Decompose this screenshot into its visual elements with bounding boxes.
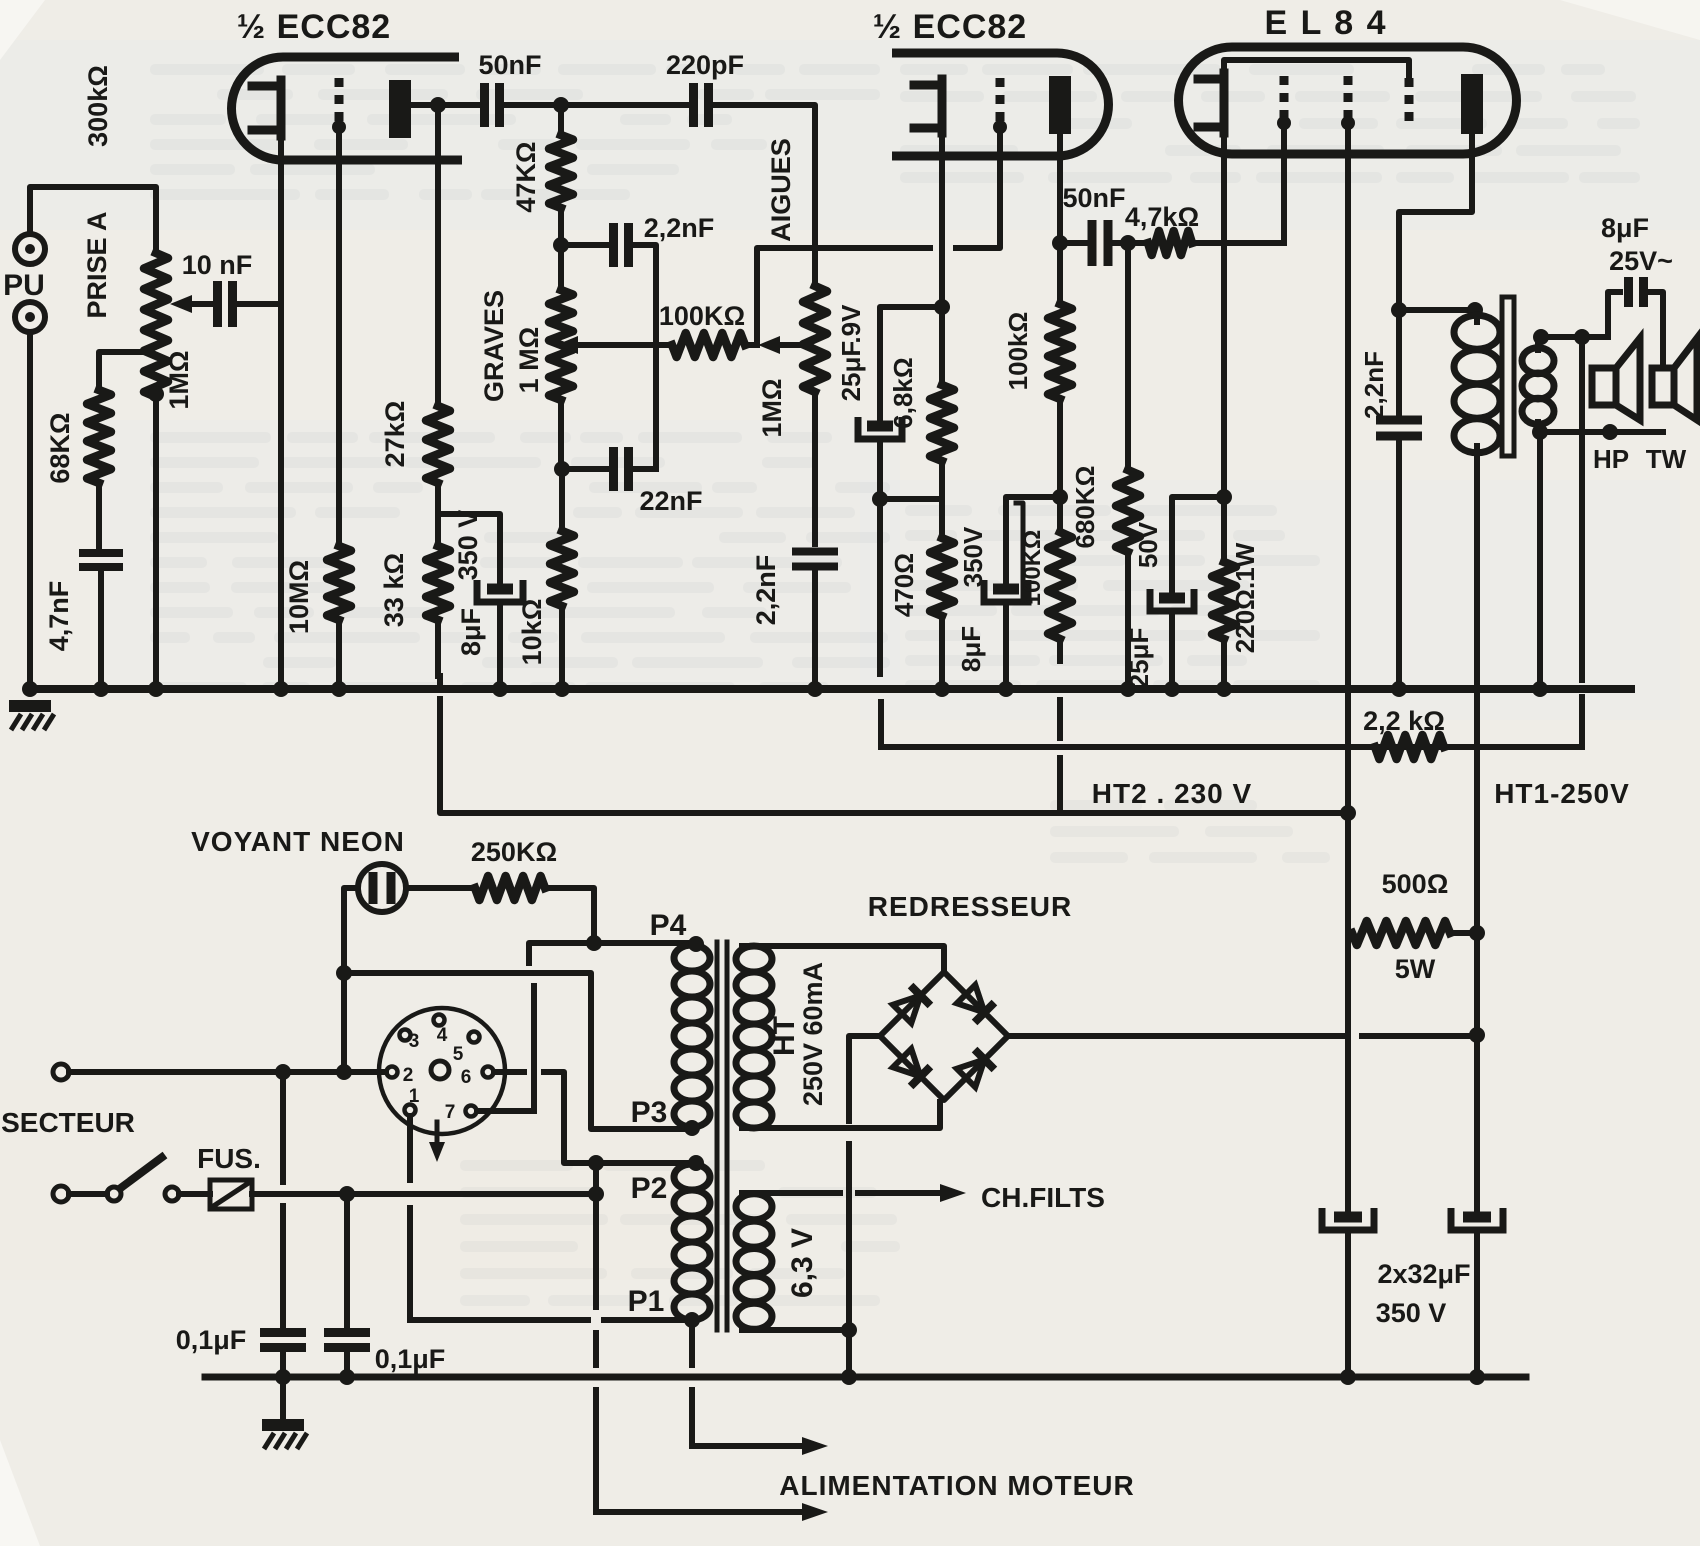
wire V2 anode down — [1057, 134, 1063, 304]
wire node to 8uF2 — [1006, 497, 1060, 583]
label tube V3 EL84 — [1265, 4, 1388, 42]
svg-text:2,2nF: 2,2nF — [751, 555, 781, 626]
svg-text:350 V: 350 V — [453, 510, 483, 581]
wire HT bottom to bridge — [742, 1102, 940, 1128]
label 50nF second — [1062, 183, 1125, 213]
node 680k bus — [1120, 681, 1136, 697]
resistor 6.8kOhm — [930, 385, 954, 461]
wire AIGUES bottom — [812, 392, 818, 544]
socket pin1 — [405, 1086, 420, 1116]
wire secondary bottom — [1538, 422, 1663, 432]
ground bus main — [27, 685, 1631, 693]
svg-text:6: 6 — [461, 1067, 472, 1088]
label 470Ohm — [889, 553, 919, 617]
wire 6.3V top — [742, 1190, 944, 1196]
label tube V1 1/2 ECC82 — [237, 8, 391, 46]
tube V1 cathode — [252, 80, 281, 136]
label 2.2kOhm — [1363, 706, 1445, 736]
socket pin4 — [434, 1015, 448, 1047]
fuse box — [179, 1180, 252, 1209]
node 0.1uF2 bus — [339, 1369, 355, 1385]
capacitor 220pF — [694, 83, 709, 127]
wire screen line to caps — [1345, 813, 1351, 1211]
wire 10M to bus — [336, 620, 342, 689]
label 2x32uF — [1377, 1259, 1470, 1289]
label 100kOhm second — [1019, 530, 1046, 607]
svg-text:100KΩ: 100KΩ — [659, 301, 745, 331]
node 680k top — [1120, 235, 1136, 251]
resistor 220Ohm — [1212, 562, 1236, 639]
svg-text:47KΩ: 47KΩ — [511, 141, 541, 212]
wire 47k top lead — [558, 105, 564, 135]
ground input — [9, 700, 54, 730]
node 47k top — [553, 97, 569, 113]
wire anode node to 50nF — [1060, 240, 1085, 246]
wire 0.1uF2 to bus — [344, 1348, 350, 1377]
tube V1 grid — [332, 78, 346, 134]
node bridge HT1 — [1469, 1027, 1485, 1043]
node 0.1uF2 tap — [339, 1186, 355, 1202]
label TW — [1646, 444, 1687, 474]
node fuse P2 junction — [588, 1186, 604, 1202]
svg-text:1: 1 — [409, 1086, 420, 1107]
capacitor 25uF 9V — [858, 417, 902, 439]
svg-text:ALIMENTATION MOTEUR: ALIMENTATION MOTEUR — [779, 1470, 1134, 1501]
svg-text:27kΩ: 27kΩ — [380, 401, 410, 468]
node P3 terminal — [684, 1120, 700, 1136]
label 2.2nF el84 — [1359, 351, 1389, 419]
wire pin7 to P4 — [477, 1108, 534, 1114]
svg-text:6,8kΩ: 6,8kΩ — [888, 357, 918, 428]
svg-text:300kΩ: 300kΩ — [83, 65, 113, 147]
node sec top — [1533, 329, 1549, 345]
node 2.2nF bus — [1391, 681, 1407, 697]
label 350V caps — [1376, 1298, 1447, 1328]
label 8uF first — [456, 608, 486, 656]
socket pin5 — [453, 1032, 480, 1066]
label HT2 230V — [1092, 778, 1252, 809]
arrow CH FILTS — [940, 1184, 966, 1202]
capacitor 8uF 350V first — [477, 580, 523, 602]
svg-text:HT2 . 230 V: HT2 . 230 V — [1092, 778, 1252, 809]
node P4 terminal — [688, 936, 704, 952]
label AIGUES 1MOhm — [757, 378, 787, 437]
terminal mains2 — [53, 1186, 69, 1202]
potentiometer AIGUES 1M — [803, 286, 827, 392]
svg-text:0,1μF: 0,1μF — [375, 1344, 446, 1374]
node decoupling — [1052, 489, 1068, 505]
node P2 terminal — [688, 1155, 704, 1171]
svg-text:2: 2 — [403, 1065, 414, 1086]
node bridge bus — [841, 1369, 857, 1385]
resistor 100kOhm tone — [672, 333, 745, 357]
wire 6.8k bottom — [939, 461, 945, 499]
label 250kOhm — [471, 837, 557, 867]
wire 10nF to V1 — [233, 301, 281, 307]
wire EL84 grid1 lead — [1281, 124, 1287, 243]
capacitor 22nF — [614, 447, 629, 491]
svg-text:10MΩ: 10MΩ — [284, 560, 314, 634]
label FUS — [197, 1143, 261, 1174]
output transformer core — [1502, 297, 1514, 456]
label 6.8kOhm — [888, 357, 918, 428]
label P2 — [631, 1172, 668, 1205]
capacitor 0.1uF second — [324, 1333, 370, 1348]
svg-text:220Ω.1W: 220Ω.1W — [1230, 542, 1260, 653]
node capA bus — [1340, 1369, 1356, 1385]
wire secondary top — [1538, 337, 1608, 350]
wire 100k2 to HT2 — [1057, 758, 1063, 813]
wire pin6 out — [494, 1069, 524, 1075]
svg-text:P3: P3 — [631, 1096, 668, 1129]
jack PU top — [15, 234, 45, 264]
capacitor filter A 2x32uF — [1322, 1208, 1374, 1230]
wire mains to 0.1uF1 — [280, 1072, 286, 1331]
svg-text:50nF: 50nF — [1062, 183, 1125, 213]
socket pin2 — [387, 1065, 414, 1086]
wire V1 cathode to bus — [278, 136, 284, 689]
wire 470 top — [939, 499, 945, 538]
diode top-left — [893, 986, 931, 1024]
resistor 33kOhm — [426, 546, 450, 620]
svg-text:8μF: 8μF — [456, 608, 486, 656]
resistor 100kOhm second — [1048, 532, 1072, 639]
feedback wire — [882, 744, 1582, 750]
potentiometer 300k — [144, 253, 168, 397]
label pot 1MOhm — [164, 350, 194, 409]
label 6.3V — [786, 1228, 819, 1298]
svg-text:E L 8 4: E L 8 4 — [1265, 4, 1388, 42]
socket arrow — [429, 1122, 445, 1162]
wire 50nF to 4.7k — [1108, 240, 1148, 246]
label 5W — [1395, 954, 1436, 984]
wire 100k2 leads — [1057, 497, 1063, 661]
wire 2.2nF el84 to bus — [1396, 436, 1402, 689]
bottom bus — [205, 1374, 1526, 1381]
node 10k bus — [554, 681, 570, 697]
wire 22nF right — [629, 466, 656, 472]
label ALIMENTATION MOTEUR — [779, 1470, 1134, 1501]
svg-text:10 nF: 10 nF — [182, 250, 253, 280]
wire motor feed 2 — [596, 1503, 828, 1521]
node 0.1uF1 tap — [275, 1064, 291, 1080]
tube V1 anode — [389, 80, 411, 138]
svg-text:350V: 350V — [958, 526, 988, 587]
node aigues bus — [807, 681, 823, 697]
node V1 cathode bus — [273, 681, 289, 697]
svg-text:250V 60mA: 250V 60mA — [798, 962, 828, 1106]
socket pin3 — [400, 1030, 420, 1053]
svg-text:22nF: 22nF — [639, 486, 702, 516]
terminal mains1 — [53, 1064, 69, 1080]
label 10nF — [182, 250, 253, 280]
socket pin7 — [445, 1102, 477, 1123]
EL84 cathode — [1198, 73, 1224, 133]
node speaker ground bus — [1532, 681, 1548, 697]
svg-text:AIGUES: AIGUES — [766, 138, 796, 242]
wire anode to OT primary — [1399, 307, 1475, 313]
svg-text:7: 7 — [445, 1102, 456, 1123]
svg-text:4: 4 — [437, 1025, 448, 1046]
diode top-right — [957, 985, 995, 1023]
bridge diamond — [880, 972, 1008, 1100]
wire EL84 cathode down — [1221, 133, 1227, 497]
label P1 — [628, 1285, 665, 1318]
wire 8uF to bus — [497, 605, 503, 689]
label 0.1uF left — [176, 1325, 247, 1355]
wire 8uF25V to TW — [1644, 292, 1663, 368]
node 500 HT1 — [1469, 925, 1485, 941]
capacitor 4.7nF — [79, 553, 123, 567]
label 25V — [1609, 246, 1673, 276]
node anode corner — [1391, 302, 1407, 318]
wire 68k top — [99, 352, 148, 390]
switch mains — [69, 1155, 179, 1201]
label SECTEUR — [1, 1107, 135, 1138]
socket pin6 — [461, 1067, 494, 1089]
svg-text:250KΩ: 250KΩ — [471, 837, 557, 867]
wire 33k jump to HT2 — [437, 676, 443, 689]
svg-text:220pF: 220pF — [666, 50, 744, 80]
wire 0.1uF1 to bus — [280, 1348, 286, 1377]
wire jack1 to pot top — [30, 187, 156, 253]
EL84 anode — [1461, 74, 1483, 134]
neon lamp — [358, 864, 406, 912]
transformer winding P2-P1 — [674, 1164, 710, 1320]
label 50V — [1133, 521, 1163, 568]
wire 100k mid — [1057, 399, 1063, 497]
wire P4 row — [529, 943, 694, 963]
svg-text:CH.FILTS: CH.FILTS — [981, 1182, 1105, 1213]
svg-text:1MΩ: 1MΩ — [164, 350, 194, 409]
node V2 anode coupling — [1052, 235, 1068, 251]
svg-text:HT1-250V: HT1-250V — [1494, 778, 1630, 809]
diode bottom-left — [893, 1049, 931, 1087]
node HP top — [1574, 329, 1590, 345]
capacitor 0.1uF first — [260, 1333, 306, 1348]
label P3 — [631, 1096, 668, 1129]
svg-text:PU: PU — [3, 269, 45, 302]
wire top to 27k — [435, 105, 441, 406]
wire 8uF2 to bus — [1003, 605, 1009, 689]
tube EL84 envelope — [1179, 47, 1517, 154]
wire motor feed 1 — [692, 1437, 828, 1455]
label 100kOhm tone — [659, 301, 745, 331]
svg-text:3: 3 — [409, 1031, 420, 1052]
node 22nF left — [554, 461, 570, 477]
wire HT top to bridge — [742, 946, 944, 972]
EL84 grid2 — [1341, 76, 1355, 130]
wire speaker ground — [1537, 432, 1543, 689]
label 8uF second — [956, 626, 986, 672]
speaker TW — [1652, 338, 1697, 420]
wire bridge DC out — [1008, 1033, 1477, 1039]
capacitor 50nF second — [1092, 220, 1108, 266]
svg-text:50V: 50V — [1133, 521, 1163, 568]
label 4.7kOhm — [1125, 202, 1199, 232]
wire P4 to pin7 — [531, 986, 537, 1111]
transformer HT winding — [736, 946, 772, 1128]
svg-text:REDRESSEUR: REDRESSEUR — [868, 891, 1072, 922]
label 27kOhm — [380, 401, 410, 468]
node P2 junction — [588, 1155, 604, 1171]
svg-text:680KΩ: 680KΩ — [1070, 465, 1100, 548]
wire V1 anode row — [411, 102, 483, 108]
label VOYANT NEON — [191, 826, 405, 857]
svg-text:2x32μF: 2x32μF — [1377, 1259, 1470, 1289]
transformer 6.3V winding — [736, 1194, 772, 1330]
wire HP connector — [1579, 337, 1585, 432]
label tube V2 1/2 ECC82 — [873, 8, 1027, 46]
label 500Ohm — [1382, 869, 1449, 899]
tube V2 grid — [993, 78, 1007, 134]
EL84 grid3 — [1405, 78, 1414, 124]
wire 6.3V bottom — [742, 1327, 849, 1333]
wire 33k leads — [435, 514, 441, 676]
wire neon left — [344, 888, 358, 1072]
socket circle — [379, 1008, 505, 1134]
wire 10k to bus — [559, 606, 565, 689]
wire 220pF to AIGUES top — [710, 105, 815, 286]
node EL84 cathode — [1216, 489, 1232, 505]
HT2 rail — [440, 699, 1348, 813]
capacitor 25uF 50V — [1150, 589, 1194, 611]
ground power — [262, 1377, 307, 1449]
label REDRESSEUR — [868, 891, 1072, 922]
wire junction to 8uF — [438, 514, 500, 583]
svg-text:FUS.: FUS. — [197, 1143, 261, 1174]
resistor 470Ohm — [930, 538, 954, 616]
svg-text:VOYANT NEON: VOYANT NEON — [191, 826, 405, 857]
label AIGUES — [766, 138, 796, 242]
wire P2 drop — [593, 1163, 599, 1512]
node screen HT2 — [1340, 805, 1356, 821]
wire 27k to junction — [435, 483, 441, 514]
svg-text:500Ω: 500Ω — [1382, 869, 1449, 899]
label HT — [768, 1016, 801, 1056]
svg-text:100kΩ: 100kΩ — [1003, 312, 1033, 391]
svg-text:4,7nF: 4,7nF — [44, 581, 74, 652]
svg-text:5: 5 — [453, 1044, 464, 1065]
svg-text:1 MΩ: 1 MΩ — [514, 327, 544, 394]
wire 50nF to 220pF — [500, 102, 692, 108]
wire pot bottom to bus — [153, 397, 159, 689]
node 27k top — [430, 97, 446, 113]
label P4 — [650, 909, 687, 942]
resistor 250kOhm — [475, 876, 545, 900]
wire 680k top lead — [1125, 243, 1131, 470]
potentiometer GRAVES 1M — [549, 290, 573, 400]
wire 4.7k to EL84 grid — [1192, 240, 1284, 246]
wire 220 leads — [1221, 497, 1227, 689]
label 350V first — [453, 510, 483, 581]
wire neon to 250k — [406, 885, 475, 891]
wire feedback drop — [1579, 432, 1585, 747]
label HP — [1593, 444, 1629, 474]
label 0.1uF right — [375, 1344, 446, 1374]
label 22nF — [639, 486, 702, 516]
svg-text:HT: HT — [768, 1016, 801, 1056]
node V2 cathode — [934, 299, 950, 315]
wire mains top — [69, 1069, 386, 1075]
wire V1 grid lead — [336, 130, 342, 546]
resistor 27kOhm — [426, 406, 450, 483]
wire 680k to bus — [1125, 552, 1131, 689]
wire riser to 8uF25V — [1608, 292, 1620, 337]
svg-text:25μF: 25μF — [1124, 628, 1154, 689]
label 350V second — [958, 526, 988, 587]
svg-text:0,1μF: 0,1μF — [176, 1325, 247, 1355]
label 10kOhm — [517, 599, 547, 666]
label 25uF50V — [1124, 628, 1154, 689]
output transformer secondary coil — [1522, 348, 1554, 425]
svg-text:470Ω: 470Ω — [889, 553, 919, 617]
wire 25uF50V to bus — [1169, 614, 1175, 689]
wire OT primary to HT1 — [1474, 453, 1480, 1035]
node pot bottom — [148, 386, 164, 402]
output transformer primary coil — [1454, 310, 1500, 455]
wire node to 470 — [880, 496, 942, 502]
tube V2 anode — [1049, 76, 1071, 134]
wire 470 to bus — [939, 616, 945, 689]
wire anode to 2.2nF — [1396, 310, 1402, 420]
node 4.7nF bus — [93, 681, 109, 697]
node neon tap — [336, 965, 352, 981]
wire jack2 to bus — [27, 332, 33, 689]
wire 2.2nF aigues to bus — [812, 566, 818, 689]
label 4.7nF — [44, 581, 74, 652]
node neon mains — [336, 1064, 352, 1080]
wire 25uF to node — [877, 443, 883, 499]
wiper arrow GRAVES — [556, 336, 672, 354]
resistor 680kOhm — [1116, 470, 1140, 552]
node 25uF50V bus — [1164, 681, 1180, 697]
capacitor 50nF first — [485, 83, 500, 127]
svg-text:33 kΩ: 33 kΩ — [379, 553, 409, 627]
wire 4.7nF to bus — [98, 567, 104, 689]
capacitor 2.2nF aigues — [792, 552, 838, 567]
label 300kOhm — [83, 65, 113, 147]
wire 100k to AIGUES wiper — [745, 342, 755, 348]
node 0.1uF1 bus — [275, 1369, 291, 1385]
capacitor filter B 2x32uF — [1451, 1208, 1503, 1230]
EL84 grid1 — [1277, 76, 1291, 130]
svg-text:350 V: 350 V — [1376, 1298, 1447, 1328]
label 680kOhm — [1070, 465, 1100, 548]
node 10M bus — [331, 681, 347, 697]
node 2.2nF left — [553, 237, 569, 253]
label PRISE A — [82, 211, 112, 318]
svg-text:2,2nF: 2,2nF — [644, 213, 715, 243]
svg-text:25μF.9V: 25μF.9V — [836, 304, 866, 402]
wire fus to 0.1uF2 — [344, 1194, 350, 1331]
svg-text:100KΩ: 100KΩ — [1019, 530, 1046, 607]
node input bus — [22, 681, 38, 697]
wire neon to P3 — [344, 973, 692, 1129]
transformer primary coil P4-P3 — [674, 945, 710, 1127]
wire pin1 to P1 — [410, 1317, 687, 1323]
node 470 bus — [934, 681, 950, 697]
wire cathode to 25uF50V — [1172, 497, 1224, 592]
resistor 10MOhm — [327, 546, 351, 620]
svg-text:6,3 V: 6,3 V — [786, 1228, 819, 1298]
node 25uF bottom — [872, 491, 888, 507]
wire capA to bottom bus — [1345, 1235, 1351, 1377]
wire 100k2 jump bus — [1057, 700, 1063, 738]
node 220 bus — [1216, 681, 1232, 697]
label 33kOhm — [379, 553, 409, 627]
wire pin6 to P2 — [544, 1072, 687, 1163]
